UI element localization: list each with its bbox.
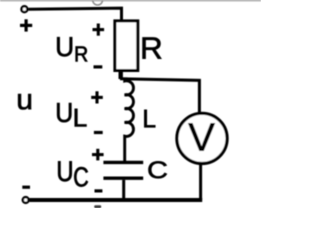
minus sign of source (22, 186, 30, 189)
wire resistor bottom to junction (118, 71, 122, 80)
plus sign UL (91, 91, 103, 103)
terminal bottom-left (-) (23, 197, 29, 203)
label UL subscript L (75, 109, 87, 127)
terminal top-left (+) (22, 6, 28, 12)
label UC letter U (58, 161, 71, 181)
label UL letter U (57, 103, 71, 122)
stray gray border line (cropped artifact) (0, 0, 261, 2)
capacitor C1 top plate (103, 161, 143, 164)
wire junction to voltmeter branch (horizontal) (120, 79, 199, 114)
voltmeter letter V (188, 123, 214, 150)
label UC subscript C (74, 167, 88, 187)
label UR letter U (57, 37, 72, 56)
capacitor C1 bottom plate (103, 176, 143, 179)
plus sign UC (92, 149, 104, 161)
minus sign UC (95, 189, 103, 192)
wire capacitor bottom to bottom rail (122, 180, 125, 200)
label C (149, 161, 167, 178)
label R (143, 38, 162, 59)
inductor L1 coil (125, 79, 134, 163)
voltmeter U1 circle (177, 113, 227, 163)
wire voltmeter bottom (199, 165, 202, 200)
plus sign UR (93, 24, 105, 36)
minus sign UL (94, 131, 103, 134)
label u (source voltage) (18, 94, 31, 109)
label UR subscript R (76, 47, 88, 62)
minus sign UR (94, 65, 103, 68)
wire bottom rail (30, 198, 203, 202)
label L (144, 110, 155, 128)
resistor R1 body (115, 21, 138, 71)
cropped glyph tick below bottom rail (artifact) (94, 205, 101, 208)
plus sign of source (20, 19, 32, 31)
partial node circle (cropped, gray) (93, 0, 103, 5)
wire top (terminal to resistor) (28, 8, 121, 21)
